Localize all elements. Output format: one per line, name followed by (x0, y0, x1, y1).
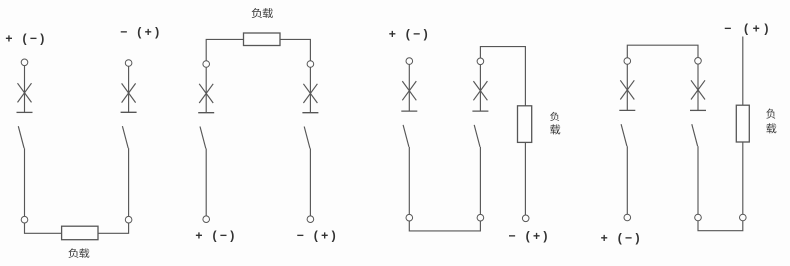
label 负 c2 (252, 8, 262, 18)
terminal circle FU1/S1 c4-left bottom (624, 214, 631, 221)
fuse FU2/S2 c4-mid (691, 80, 705, 99)
switch FU1/S1 c4-left (619, 110, 635, 146)
load resistor c1 负载 (62, 226, 98, 240)
switch FU1/S1 c3-left (401, 111, 417, 147)
svg-text:− (+): − (+) (120, 25, 162, 39)
circuit 4: load in right branch, source + at bottom left (601, 21, 777, 245)
wire c3 load lower (524, 142, 526, 215)
label 负 c1 (68, 248, 78, 258)
wire FU2/S2 c2-right fuse lead (309, 67, 311, 112)
svg-text:+ (−): + (−) (5, 32, 47, 46)
terminal circle FU2/S2 c3-mid bottom (477, 214, 484, 221)
load resistor c4 负载 (736, 105, 749, 142)
label 负 c4 (766, 108, 775, 118)
wire c2 top left (206, 39, 243, 60)
terminal circle FU1/S1 c1-left top (21, 59, 28, 66)
terminal circle c3 load bottom (522, 215, 529, 222)
wire c4 bottom (698, 221, 743, 231)
terminal circle FU2/S2 c2-right bottom (307, 216, 314, 223)
label 载 c2 (263, 8, 273, 18)
terminal circle FU1/S1 c2-left top (203, 61, 210, 68)
fuse FU1/S1 c2-left (199, 84, 213, 103)
wire c2 top right (280, 39, 310, 60)
svg-text:− (+): − (+) (297, 228, 339, 242)
terminal circle FU2/S2 c1-right top (125, 60, 132, 67)
wire c4 load upper (742, 37, 744, 106)
wire FU1/S1 c1-left fuse lead (24, 66, 26, 113)
terminal circle FU2/S2 c1-right bottom (125, 216, 132, 223)
wire FU1/S1 c2-left lower (205, 149, 207, 216)
switch FU2/S2 c4-mid (690, 110, 706, 146)
circuit 3: load in right branch, source at bottom right (389, 27, 561, 243)
terminal circle FU2/S2 c2-right top (307, 61, 314, 68)
label 载 c3 (550, 124, 560, 134)
svg-text:+ (−): + (−) (389, 27, 431, 41)
switch FU1/S1 c2-left (198, 113, 214, 149)
terminal circle FU2/S2 c3-mid top (477, 58, 484, 65)
circuit 1: load at bottom (5, 25, 162, 258)
label 载 c4 (766, 123, 776, 133)
wire c1 bottom right (98, 223, 129, 233)
fuse FU2/S2 c1-right (122, 83, 136, 102)
fuse FU1/S1 c1-left (18, 83, 32, 102)
wire FU1/S1 c3-left lower (408, 147, 410, 215)
fuse FU2/S2 c2-right (303, 84, 317, 103)
label 负 c3 (550, 112, 559, 121)
terminal circle FU1/S1 c3-left bottom (406, 214, 413, 221)
wire FU2/S2 c4-mid lower (697, 146, 699, 214)
switch FU2/S2 c1-right (121, 112, 137, 148)
fuse FU1/S1 c4-left (620, 80, 634, 99)
switch FU2/S2 c3-mid (472, 111, 488, 147)
wire c4 top (627, 45, 698, 58)
wire FU1/S1 c2-left fuse lead (205, 67, 207, 112)
wire FU1/S1 c3-left fuse lead (408, 64, 410, 111)
wire FU2/S2 c2-right lower (309, 149, 311, 216)
fuse FU2/S2 c3-mid (473, 81, 487, 100)
svg-text:− (+): − (+) (724, 21, 773, 35)
load resistor c3 负载 (518, 106, 532, 143)
wire c4 load lower (742, 142, 744, 214)
terminal circle FU1/S1 c1-left bottom (21, 216, 28, 223)
wire FU2/S2 c4-mid fuse lead (697, 64, 699, 110)
wire FU2/S2 c3-mid fuse lead (479, 65, 481, 112)
terminal circle FU1/S1 c2-left bottom (203, 216, 210, 223)
wire FU2/S2 c3-mid lower (479, 147, 481, 215)
load resistor c2 负载 (244, 33, 281, 46)
switch FU2/S2 c2-right (302, 113, 318, 149)
circuit 2: load at top (195, 8, 339, 242)
wire FU2/S2 c1-right lower (128, 148, 130, 216)
terminal circle FU1/S1 c4-left top (624, 58, 631, 65)
terminal circle FU2/S2 c4-mid bottom (695, 214, 702, 221)
svg-text:+ (−): + (−) (601, 231, 643, 245)
fuse FU1/S1 c3-left (402, 81, 416, 100)
wire FU1/S1 c4-left lower (626, 146, 628, 214)
label 载 c1 (79, 248, 89, 257)
terminal circle FU2/S2 c4-mid top (695, 58, 702, 65)
wire FU1/S1 c1-left lower (24, 148, 26, 216)
wire FU2/S2 c1-right fuse lead (128, 66, 130, 112)
switch FU1/S1 c1-left (17, 112, 33, 148)
wire c1 bottom left (25, 223, 62, 233)
svg-text:− (+): − (+) (509, 229, 551, 243)
terminal circle c4 load bottom (740, 214, 747, 221)
wire c3 bottom (409, 221, 480, 231)
wire FU1/S1 c4-left fuse lead (626, 64, 628, 110)
wire c3 top to load (480, 47, 525, 106)
svg-text:+ (−): + (−) (195, 228, 237, 242)
terminal circle FU1/S1 c3-left top (406, 58, 413, 65)
